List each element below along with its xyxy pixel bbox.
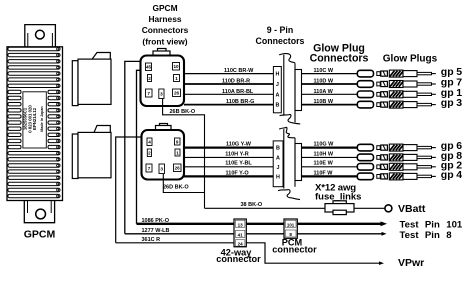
- svg-text:110D W: 110D W: [314, 79, 334, 85]
- title GPCM Harness Connectors (front view): [142, 3, 189, 47]
- arrow test pin 101: [381, 221, 388, 226]
- wire 110D BR-R: [184, 83, 273, 85]
- svg-text:26: 26: [174, 91, 180, 96]
- wire 1086 PK-O (to Test Pin 101): [137, 223, 385, 225]
- PCM connector: [272, 219, 317, 255]
- svg-text:Connectors: Connectors: [142, 25, 189, 35]
- title 9-Pin Connectors: [256, 25, 305, 46]
- wires 9-pin to glow plug connectors (upper W group): [302, 74, 358, 105]
- 9-pin lower pin block B A J H: [273, 141, 283, 187]
- svg-text:H: H: [275, 72, 279, 78]
- svg-text:Glow Plugs: Glow Plugs: [383, 54, 438, 65]
- wire 1277 W-LB vertical from upper connector: [125, 61, 141, 233]
- lower connector pins: [146, 138, 181, 174]
- glow plug gp5: [377, 66, 462, 78]
- svg-text:A: A: [276, 155, 280, 161]
- GPCM module body: [7, 47, 63, 201]
- svg-text:110G W: 110G W: [314, 141, 335, 147]
- wire 110G W: [302, 147, 358, 149]
- upper connector pins: [146, 63, 181, 99]
- svg-text:9: 9: [176, 139, 179, 144]
- svg-text:(front view): (front view): [142, 37, 187, 47]
- svg-text:110A W: 110A W: [314, 89, 334, 95]
- glow plug connector C gp4: [357, 173, 373, 180]
- svg-text:B: B: [275, 102, 279, 108]
- svg-text:7: 7: [148, 166, 151, 171]
- arrow VPwr: [379, 261, 384, 265]
- wire 38 BK-O to VBatt: [205, 207, 385, 209]
- wires GPCM to 9-pin (upper, BR group): [184, 74, 273, 105]
- wire 361C R (to VPwr): [116, 243, 382, 263]
- ground wire 26B BK-O: [163, 99, 205, 209]
- break squiggle below lower 9-pin: [278, 190, 300, 200]
- glow plug gp6: [377, 140, 462, 152]
- svg-text:110H Y-R: 110H Y-R: [225, 151, 248, 157]
- svg-text:110G Y-W: 110G Y-W: [226, 141, 252, 147]
- wires GPCM to 9-pin (lower, Y group): [184, 148, 273, 177]
- ground wire 26D BK-O: [163, 174, 204, 193]
- svg-text:Test Pin 8: Test Pin 8: [400, 230, 453, 241]
- svg-text:361C R: 361C R: [142, 237, 161, 243]
- svg-text:VPwr: VPwr: [398, 257, 424, 269]
- svg-text:1: 1: [175, 76, 178, 81]
- wire 110C BR-W: [184, 73, 273, 75]
- svg-text:3: 3: [160, 167, 163, 172]
- glow plug connector C gp1: [357, 91, 373, 98]
- svg-text:Made in Japan: Made in Japan: [40, 106, 44, 132]
- glow plug connector C gp6: [357, 144, 373, 151]
- svg-text:connector: connector: [272, 245, 317, 255]
- svg-text:gp 3: gp 3: [441, 97, 462, 109]
- glow plug gp2: [377, 159, 462, 171]
- svg-text:Harness: Harness: [148, 14, 181, 24]
- svg-text:2: 2: [148, 150, 151, 155]
- wire 110C W: [302, 73, 358, 75]
- wire 110E W: [302, 166, 358, 168]
- svg-text:26D BK-O: 26D BK-O: [163, 185, 189, 191]
- glow plug gp7: [377, 77, 462, 89]
- glow plug connector C gp2: [357, 164, 373, 171]
- svg-text:45: 45: [146, 65, 152, 70]
- harness connector upper: keying tab: [153, 49, 170, 56]
- svg-text:110H W: 110H W: [314, 151, 334, 157]
- svg-text:GPCM: GPCM: [152, 3, 177, 13]
- svg-text:110A BR-BL: 110A BR-BL: [222, 89, 254, 95]
- svg-text:2: 2: [148, 76, 151, 81]
- glow plug connectors (8 rounded boxes): [357, 70, 373, 179]
- harness connector lower: keying tab: [156, 124, 172, 131]
- glow plug gp8: [377, 150, 462, 162]
- GPCM fins: [8, 47, 60, 197]
- svg-text:41: 41: [238, 232, 244, 237]
- svg-text:B: B: [276, 146, 280, 152]
- svg-text:38 BK-O: 38 BK-O: [241, 202, 263, 208]
- svg-text:110E W: 110E W: [314, 161, 334, 167]
- svg-text:10: 10: [173, 64, 179, 69]
- 9-pin connector lower body: [278, 127, 302, 199]
- title Glow Plug Connectors: [310, 43, 369, 65]
- svg-text:J: J: [277, 165, 280, 171]
- wire 110E Y-BL: [184, 166, 273, 168]
- wire 1277 W-LB (to Test Pin 8): [125, 233, 384, 235]
- svg-text:110F W: 110F W: [314, 170, 334, 176]
- svg-text:Test Pin 101: Test Pin 101: [400, 219, 463, 230]
- svg-text:1277 W-LB: 1277 W-LB: [142, 228, 170, 234]
- svg-text:1086 PK-O: 1086 PK-O: [142, 218, 170, 224]
- glow plug gp3: [377, 97, 462, 109]
- harness connector lower body: [142, 130, 185, 180]
- GPCM part label sticker: [23, 92, 47, 148]
- svg-text:13: 13: [238, 222, 244, 227]
- 42-way connector: [216, 219, 261, 264]
- wires 9-pin to glow plug connectors (lower W group): [302, 148, 358, 177]
- svg-text:110F Y-O: 110F Y-O: [226, 170, 250, 176]
- 9-pin upper pin block H J A B: [273, 67, 281, 113]
- svg-text:3: 3: [160, 92, 163, 97]
- svg-text:Connectors: Connectors: [256, 36, 305, 46]
- svg-text:110C W: 110C W: [314, 68, 334, 74]
- wire 110A BR-BL: [184, 93, 273, 95]
- svg-text:fuse_links: fuse_links: [315, 192, 361, 203]
- glow plug connector C gp7: [357, 81, 373, 88]
- glow plug connector C gp3: [357, 101, 373, 108]
- glow plug connector C gp8: [357, 154, 373, 161]
- wire 110D W: [302, 83, 358, 85]
- wire 110A W: [302, 93, 358, 95]
- wire 1086 PK-O vertical from upper connector: [137, 70, 141, 224]
- VBatt terminal: [385, 205, 392, 212]
- glow plug gp4: [377, 169, 462, 181]
- svg-text:1: 1: [176, 150, 179, 155]
- svg-text:110B BR-G: 110B BR-G: [226, 99, 254, 105]
- wire 361C R vertical from lower connector: [116, 137, 142, 243]
- glow plugs (8): [377, 66, 462, 181]
- svg-text:4: 4: [148, 140, 151, 145]
- svg-text:110D BR-R: 110D BR-R: [222, 79, 250, 85]
- harness connector upper body: [141, 56, 185, 107]
- svg-text:Connectors: Connectors: [310, 53, 369, 65]
- wire 110G Y-W: [184, 147, 273, 149]
- svg-text:101: 101: [287, 222, 295, 227]
- svg-text:9 - Pin: 9 - Pin: [267, 25, 293, 35]
- fuse link symbol: [325, 201, 354, 215]
- glow plug connector C gp5: [357, 70, 373, 77]
- wire 110B BR-G: [184, 104, 273, 106]
- GPCM bottom mounting tab: [24, 201, 54, 223]
- GPCM lower connector stub: [72, 126, 111, 179]
- svg-text:gp 4: gp 4: [441, 169, 462, 181]
- wire 110F Y-O: [184, 175, 273, 177]
- svg-text:24: 24: [238, 241, 244, 246]
- wire 110H W: [302, 156, 358, 158]
- svg-text:26: 26: [175, 166, 181, 171]
- wire 110F W: [302, 175, 358, 177]
- svg-text:110E Y-BL: 110E Y-BL: [225, 161, 252, 167]
- svg-text:110B W: 110B W: [314, 99, 334, 105]
- svg-text:GPCM: GPCM: [24, 228, 56, 240]
- svg-text:VBatt: VBatt: [398, 203, 426, 215]
- wire 110B W: [302, 104, 358, 106]
- svg-text:110C BR-W: 110C BR-W: [224, 68, 254, 74]
- glow plug gp1: [377, 87, 462, 99]
- arrow test pin 8: [382, 232, 387, 236]
- svg-text:connector: connector: [216, 254, 261, 264]
- svg-text:A: A: [275, 92, 279, 98]
- wire 110H Y-R: [184, 156, 273, 158]
- svg-text:26B BK-O: 26B BK-O: [170, 109, 196, 115]
- svg-text:H: H: [276, 174, 280, 180]
- 9-pin connector upper body: [279, 54, 301, 124]
- svg-text:J: J: [276, 82, 279, 88]
- svg-text:EPN214.12: EPN214.12: [32, 107, 37, 130]
- GPCM upper connector stub: [72, 53, 111, 106]
- GPCM top mounting tab: [25, 25, 56, 47]
- svg-text:7: 7: [147, 91, 150, 96]
